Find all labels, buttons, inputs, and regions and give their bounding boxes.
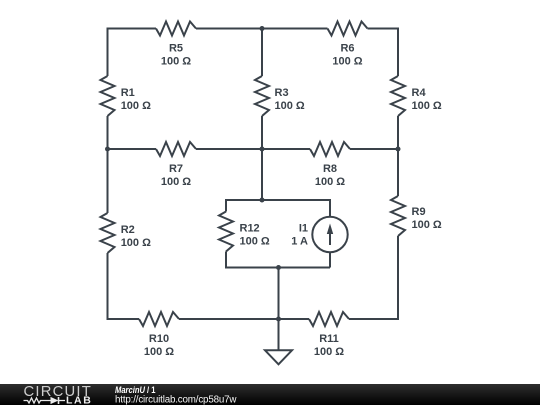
svg-text:100 Ω: 100 Ω (121, 100, 151, 112)
resistor R10 (139, 312, 179, 358)
resistor R1 (101, 76, 152, 116)
svg-text:R8: R8 (323, 163, 337, 175)
wire (226, 199, 330, 201)
svg-text:100 Ω: 100 Ω (161, 56, 191, 68)
svg-text:I1: I1 (299, 223, 308, 235)
node bottom-ground (276, 317, 281, 322)
wire (397, 236, 399, 320)
wire (278, 319, 280, 350)
node box-top (260, 198, 265, 203)
svg-text:100 Ω: 100 Ω (315, 176, 345, 188)
resistor R8 (310, 142, 350, 188)
svg-text:R4: R4 (412, 87, 427, 99)
svg-text:R9: R9 (412, 206, 426, 218)
wire (350, 148, 398, 150)
wire (107, 149, 109, 213)
wire (225, 199, 227, 212)
CircuitLab logo symbol (24, 398, 52, 403)
footer bar (0, 384, 540, 405)
svg-text:100 Ω: 100 Ω (121, 237, 151, 249)
wire (261, 116, 263, 200)
svg-text:R2: R2 (121, 224, 135, 236)
node top-center (260, 26, 265, 31)
node center-middle (260, 147, 265, 152)
wire (196, 148, 310, 150)
svg-text:LAB: LAB (66, 395, 91, 405)
ground (265, 350, 292, 364)
node box-bottom (276, 265, 281, 270)
node right-middle (396, 147, 401, 152)
node left-middle (105, 147, 110, 152)
svg-text:R6: R6 (340, 43, 354, 55)
wire (278, 268, 280, 320)
wire (226, 267, 330, 269)
svg-text:100 Ω: 100 Ω (275, 100, 305, 112)
wire (108, 148, 157, 150)
svg-text:100 Ω: 100 Ω (412, 219, 442, 231)
svg-text:100 Ω: 100 Ω (314, 346, 344, 358)
current source I1 (291, 217, 347, 252)
wire (108, 28, 157, 30)
wire (368, 28, 399, 30)
wire (349, 318, 398, 320)
svg-text:1 A: 1 A (291, 236, 308, 248)
wire (329, 252, 331, 268)
svg-text:100 Ω: 100 Ω (412, 100, 442, 112)
svg-text:R12: R12 (240, 223, 260, 235)
resistor R2 (101, 213, 152, 253)
wire (107, 28, 109, 77)
wire (179, 318, 309, 320)
svg-text:R3: R3 (275, 87, 289, 99)
wire (225, 252, 227, 269)
wire (397, 116, 399, 196)
resistor R5 (156, 22, 196, 68)
svg-text:100 Ω: 100 Ω (240, 236, 270, 248)
svg-text:100 Ω: 100 Ω (144, 346, 174, 358)
wire (261, 28, 263, 77)
resistor R6 (328, 22, 368, 68)
svg-text:R7: R7 (169, 163, 183, 175)
wire (329, 199, 331, 217)
svg-text:R11: R11 (319, 333, 339, 345)
resistor R11 (309, 312, 349, 358)
wire (397, 28, 399, 77)
svg-text:100 Ω: 100 Ω (332, 56, 362, 68)
svg-text:R1: R1 (121, 87, 135, 99)
wire (107, 116, 109, 149)
resistor R12 (219, 212, 270, 252)
svg-text:http://circuitlab.com/cp58u7w: http://circuitlab.com/cp58u7w (115, 395, 237, 405)
resistor R4 (391, 76, 442, 116)
svg-text:100 Ω: 100 Ω (161, 176, 191, 188)
resistor R7 (156, 142, 196, 188)
wire (107, 253, 109, 320)
svg-text:R5: R5 (169, 43, 183, 55)
resistor R9 (391, 196, 442, 236)
wire (196, 28, 328, 30)
svg-text:R10: R10 (149, 333, 169, 345)
resistor R3 (255, 76, 305, 116)
wire (108, 318, 140, 320)
